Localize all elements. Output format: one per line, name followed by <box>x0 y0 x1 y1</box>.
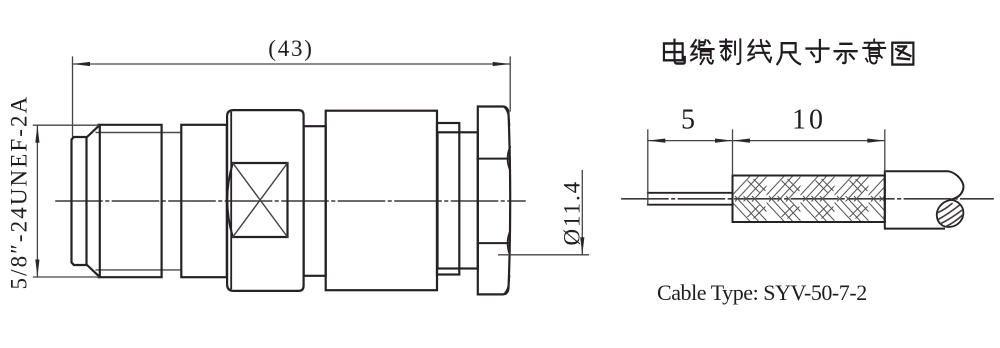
svg-text:5/8″-24UNEF-2A: 5/8″-24UNEF-2A <box>7 95 32 290</box>
cable center conductor <box>648 193 733 205</box>
centerline of connector <box>56 200 525 202</box>
dimension 5/8-24UNEF-2A: extension top <box>34 124 100 126</box>
cable centerline <box>622 198 993 200</box>
knurl crossed square <box>233 163 288 237</box>
back sleeve <box>438 132 478 268</box>
svg-text:5: 5 <box>681 105 695 136</box>
dimension (43): line <box>73 63 511 65</box>
Ø11.4 arrow <box>580 237 584 255</box>
knurl cross diagonals <box>233 163 288 237</box>
dimension (43): extension line right <box>509 57 511 111</box>
dimension 5/10: ext line 1 <box>647 130 649 205</box>
dim line 5 and 10 <box>648 140 885 142</box>
hex corner arc bottom <box>508 232 510 256</box>
washer <box>437 123 459 275</box>
hex corner arc top-right <box>504 107 510 125</box>
back nut hex flat top <box>478 158 510 160</box>
braid tuft at torn end <box>937 200 964 227</box>
arrows at 732.5 <box>715 139 750 143</box>
clamp nut inner face line <box>230 113 232 289</box>
hex corner arc bottom-right <box>504 276 510 294</box>
title: cable stripping dimensions schematic (CJK) <box>664 40 913 65</box>
thread thin line top <box>96 132 181 134</box>
extension bottom <box>34 276 100 278</box>
back nut outline <box>478 107 510 295</box>
svg-text:Ø11.4: Ø11.4 <box>560 180 585 246</box>
knurl arc <box>227 163 233 237</box>
Ø11.4 dim line <box>581 171 583 255</box>
sleeve between nut and body <box>304 126 326 276</box>
dimension (43): left arrow <box>73 62 91 66</box>
arrow up <box>35 125 39 143</box>
coupling body <box>99 125 162 277</box>
svg-text:Cable Type: SYV-50-7-2: Cable Type: SYV-50-7-2 <box>657 280 867 305</box>
arrow at 647.8 pointing left <box>648 139 666 143</box>
svg-text:10: 10 <box>792 105 826 136</box>
shell section <box>181 125 227 277</box>
chamfer bottom <box>87 265 100 278</box>
dim line vertical <box>36 125 38 277</box>
ext line 3 <box>884 130 886 171</box>
main large body <box>326 111 437 291</box>
thread thin line bottom <box>96 269 181 271</box>
arrow down <box>35 260 39 278</box>
dimension Ø11.4 leader <box>499 254 589 256</box>
svg-text:(43): (43) <box>268 36 314 61</box>
back nut hex flat bottom <box>478 242 510 244</box>
cable jacket outline <box>885 171 964 228</box>
dimension (43): right arrow <box>493 62 511 66</box>
ext line 2 <box>732 130 734 175</box>
dimension (43): extension line left <box>72 57 74 137</box>
cable braid section <box>733 176 885 223</box>
clamp nut with knurl <box>227 110 304 291</box>
braid tuft hatching <box>938 204 962 227</box>
hex corner arc top <box>508 147 510 170</box>
arrow at 884.8 pointing right <box>867 139 885 143</box>
connector rim (front) <box>72 137 87 265</box>
chamfer top <box>87 125 100 138</box>
